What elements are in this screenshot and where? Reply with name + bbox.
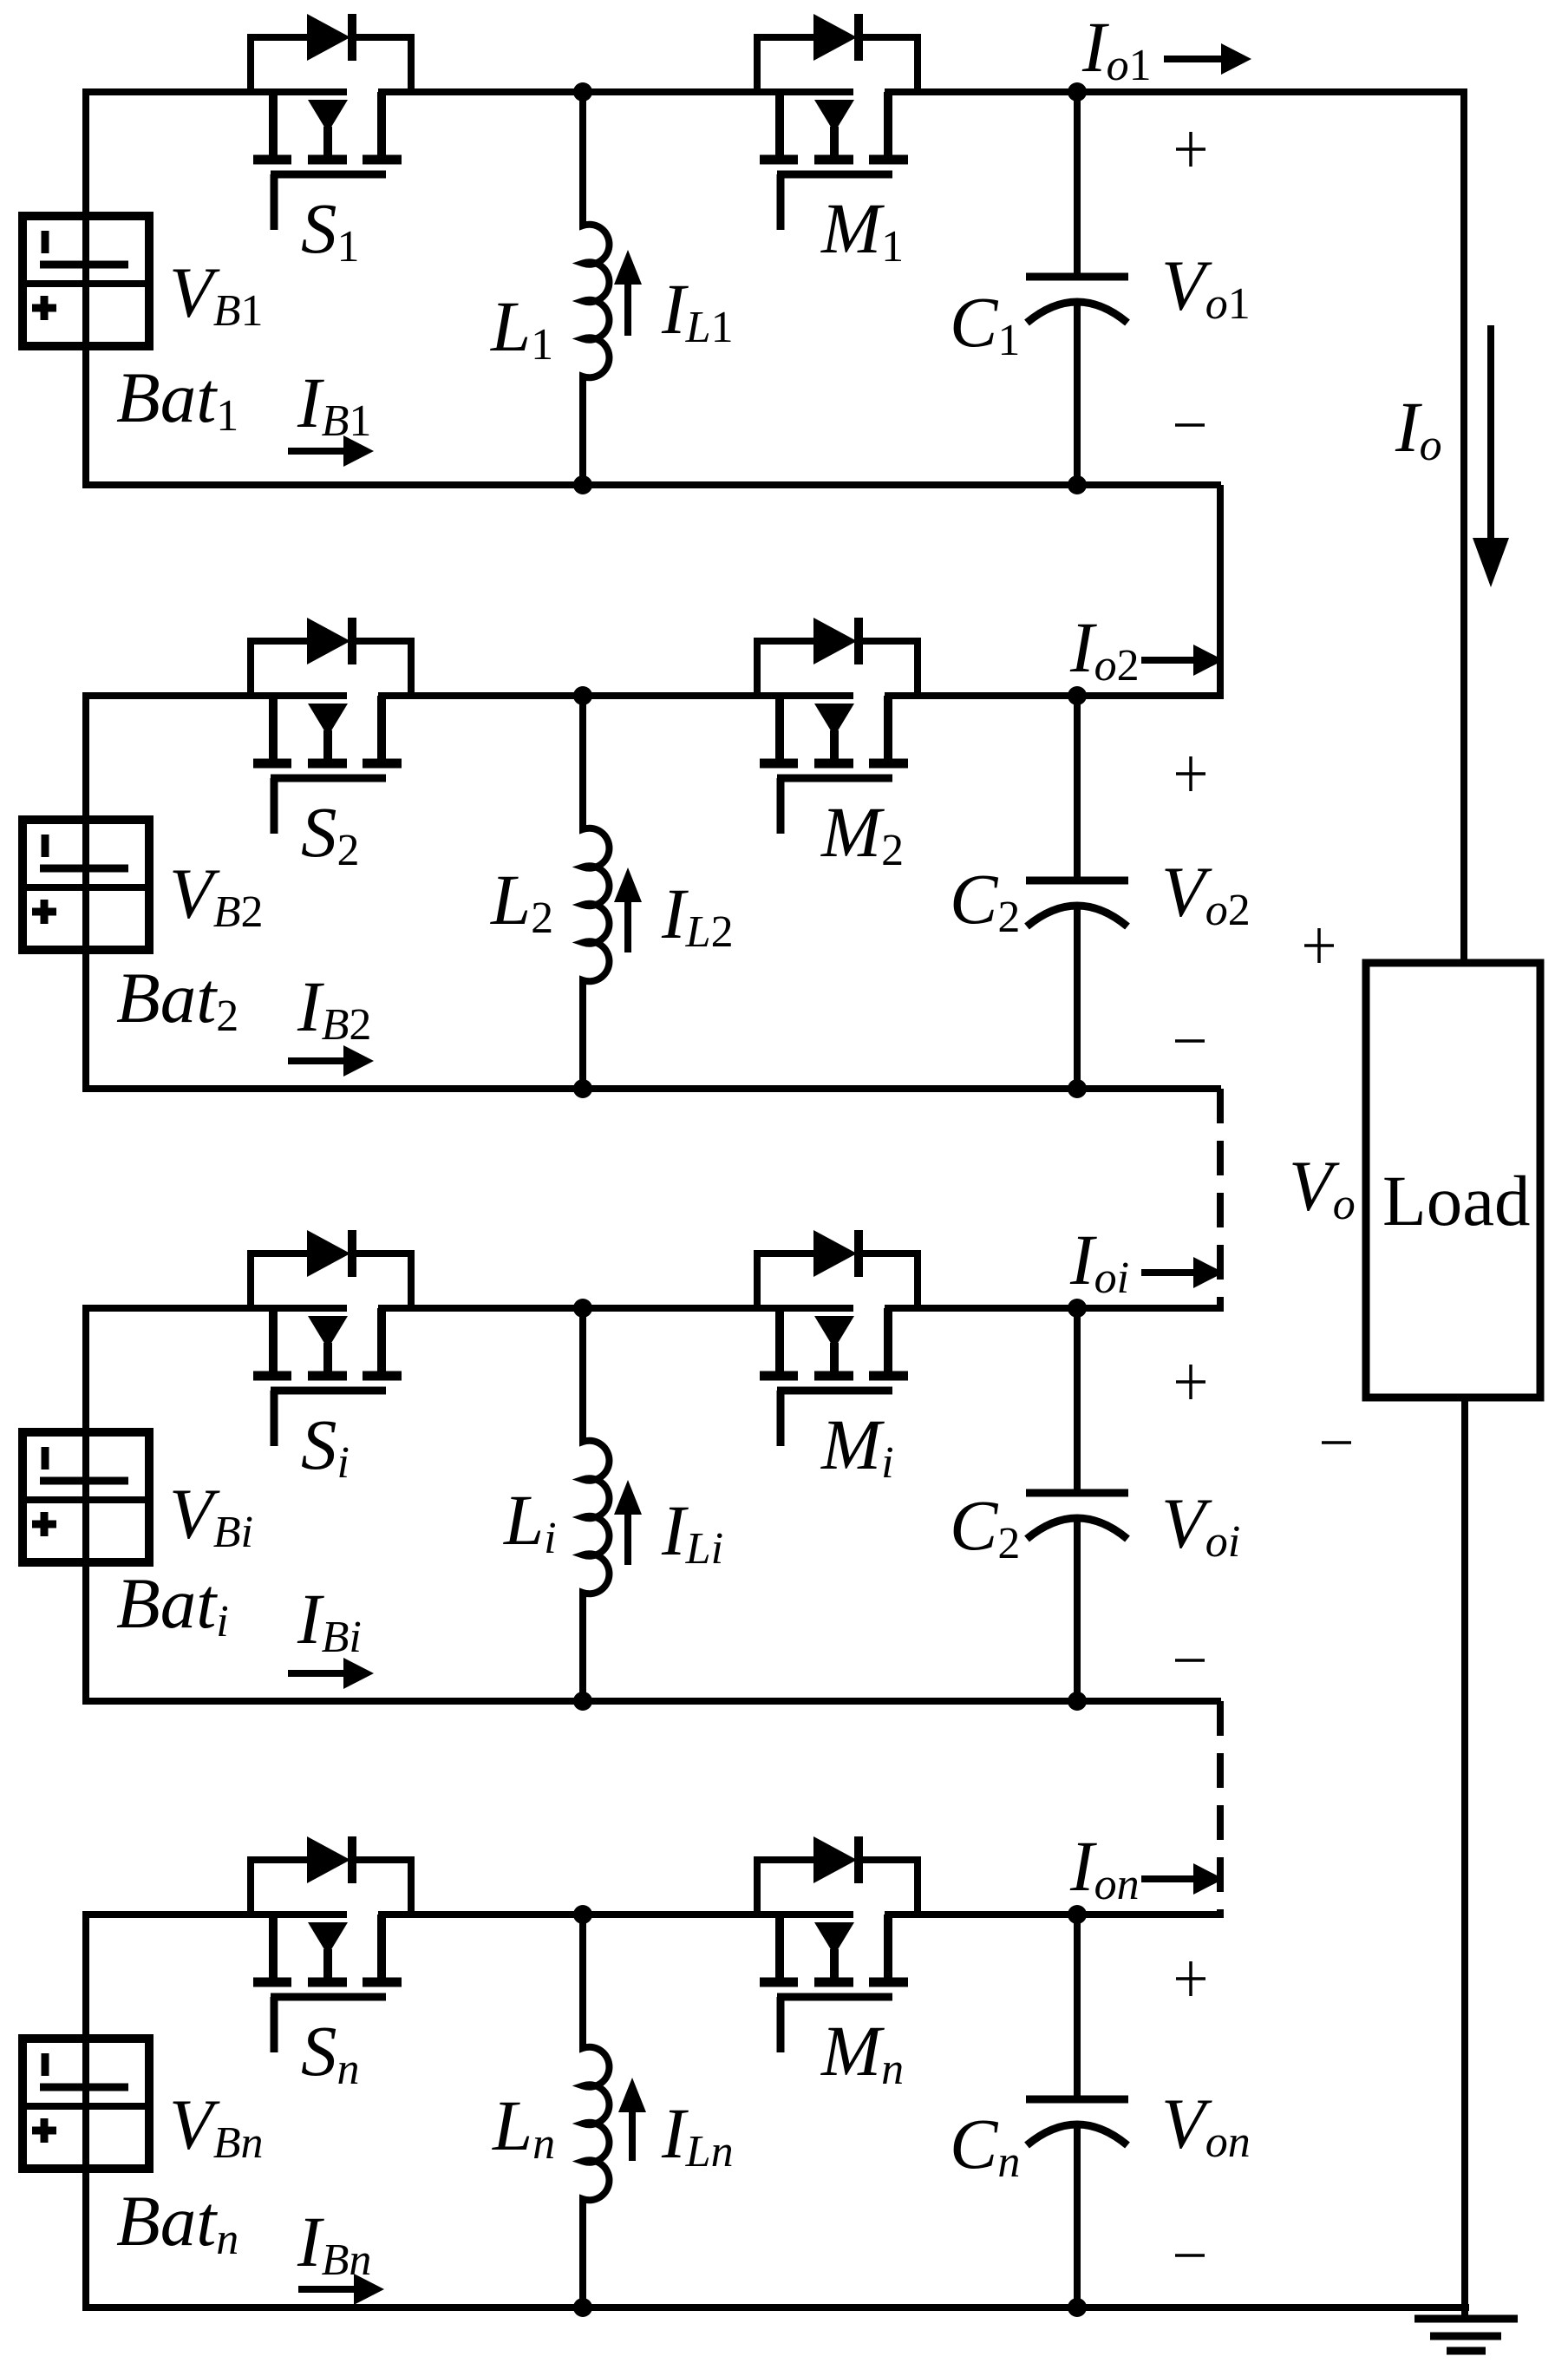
transistor S2 (MOSFET with body diode) bbox=[251, 618, 411, 834]
transistor Si (MOSFET with body diode) bbox=[251, 1230, 411, 1446]
capacitor C2 (stage 2) bbox=[1026, 696, 1128, 1089]
wire: stage 2 left (battery) wire bbox=[82, 696, 89, 1089]
arrow Io bbox=[1473, 325, 1509, 587]
node: L2 top junction bbox=[573, 686, 592, 705]
battery Bati bbox=[23, 1432, 149, 1562]
svg-text:VBn: VBn bbox=[169, 2085, 263, 2168]
svg-text:Sn: Sn bbox=[301, 2011, 360, 2094]
node: L1 bottom junction bbox=[573, 475, 592, 494]
svg-text:IBn: IBn bbox=[297, 2202, 371, 2285]
svg-text:Bati: Bati bbox=[116, 1563, 229, 1646]
svg-text:VB2: VB2 bbox=[169, 854, 263, 937]
transistor S1 (MOSFET with body diode) bbox=[251, 14, 411, 230]
svg-text:M2: M2 bbox=[820, 792, 904, 875]
plus sign Vo2 bbox=[1176, 756, 1205, 791]
svg-text:Bat1: Bat1 bbox=[116, 357, 238, 441]
wire: load bottom to ground rail bbox=[1461, 1397, 1468, 2318]
svg-text:ILi: ILi bbox=[661, 1490, 723, 1574]
wire: stage 1 left (battery) wire bbox=[82, 92, 89, 485]
transistor M1 (MOSFET with body diode) bbox=[757, 14, 918, 230]
plus sign Von bbox=[1176, 1961, 1205, 1996]
wire: stage 2 top rail bbox=[82, 692, 1221, 699]
minus sign Vo2 bbox=[1175, 1039, 1205, 1043]
svg-text:Vo1: Vo1 bbox=[1161, 245, 1251, 329]
wire: stage i top rail bbox=[82, 1305, 1221, 1312]
svg-text:Vo: Vo bbox=[1289, 1146, 1356, 1229]
transistor Mn (MOSFET with body diode) bbox=[757, 1836, 918, 2052]
arrow Io2 bbox=[1141, 645, 1224, 676]
ground bbox=[1414, 2319, 1518, 2351]
svg-text:S2: S2 bbox=[301, 792, 360, 875]
wire: stage 1 top rail bbox=[82, 88, 1464, 95]
node: L2 bottom junction bbox=[573, 1079, 592, 1098]
inductor Ln bbox=[583, 1915, 609, 2307]
inductor Li bbox=[583, 1308, 609, 1701]
node: Li bottom junction bbox=[573, 1692, 592, 1711]
svg-text:Io: Io bbox=[1395, 387, 1442, 470]
arrow IB1 bbox=[288, 435, 374, 467]
capacitor C1 (stage 1) bbox=[1026, 92, 1128, 485]
svg-text:Ioi: Ioi bbox=[1069, 1220, 1129, 1303]
node: C bottom junction stage n bbox=[1068, 2298, 1087, 2317]
svg-text:Vo2: Vo2 bbox=[1161, 852, 1251, 935]
svg-text:Io2: Io2 bbox=[1069, 607, 1140, 691]
arrow ILn bbox=[618, 2078, 646, 2161]
node: L1 top junction bbox=[573, 82, 592, 101]
arrow IL1 bbox=[614, 250, 642, 336]
arrow Ion bbox=[1141, 1863, 1224, 1895]
wire: stage n top rail bbox=[82, 1911, 1221, 1918]
node: C bottom junction stage i bbox=[1068, 1692, 1087, 1711]
svg-text:Io1: Io1 bbox=[1081, 7, 1152, 90]
battery Bat1 bbox=[23, 216, 149, 346]
wire: stage i bottom rail bbox=[82, 1698, 1221, 1705]
svg-text:Ln: Ln bbox=[492, 2085, 555, 2169]
svg-text:Voi: Voi bbox=[1161, 1483, 1240, 1567]
wire: link stage1 bottom to stage2 top rail bbox=[1217, 485, 1224, 699]
arrow IBn bbox=[298, 2274, 384, 2305]
svg-text:Mi: Mi bbox=[820, 1404, 894, 1488]
svg-text:Ion: Ion bbox=[1069, 1826, 1140, 1909]
svg-text:M1: M1 bbox=[820, 188, 904, 272]
plus sign Vo1 bbox=[1176, 132, 1205, 167]
node: Ln top junction bbox=[573, 1905, 592, 1924]
wire: stage 2 bottom rail bbox=[82, 1085, 1221, 1092]
arrow ILi bbox=[614, 1480, 642, 1565]
wire: output rail to load bbox=[1460, 88, 1467, 963]
minus sign Von bbox=[1175, 2254, 1205, 2257]
transistor Mi (MOSFET with body diode) bbox=[757, 1230, 918, 1446]
minus sign Vo1 bbox=[1175, 423, 1205, 427]
svg-text:IL2: IL2 bbox=[661, 874, 734, 957]
svg-text:Von: Von bbox=[1161, 2084, 1251, 2167]
wire: dashed link stage2 bottom to stage i top rail bbox=[1217, 1089, 1224, 1312]
svg-text:S1: S1 bbox=[301, 188, 360, 272]
arrow Io1 bbox=[1164, 43, 1251, 75]
load box bbox=[1366, 963, 1540, 1397]
battery Bat2 bbox=[23, 820, 149, 950]
plus sign Voi bbox=[1176, 1365, 1205, 1399]
arrow Ioi bbox=[1141, 1257, 1224, 1288]
svg-text:Mn: Mn bbox=[820, 2011, 904, 2094]
svg-text:Batn: Batn bbox=[116, 2181, 238, 2264]
wire: dashed link stage i bottom to stage n top rail bbox=[1217, 1701, 1224, 1918]
svg-text:Bat2: Bat2 bbox=[116, 958, 238, 1041]
wire: stage n left (battery) wire bbox=[82, 1915, 89, 2307]
node: C top junction stage 1 bbox=[1068, 82, 1087, 101]
svg-text:VB1: VB1 bbox=[169, 252, 263, 336]
node: Ln bottom junction bbox=[573, 2298, 592, 2317]
capacitor C2 (stage i) bbox=[1026, 1308, 1128, 1701]
wire: stage 1 bottom rail bbox=[82, 481, 1221, 488]
svg-text:VBi: VBi bbox=[169, 1474, 253, 1557]
svg-text:Load: Load bbox=[1382, 1161, 1531, 1240]
svg-text:Si: Si bbox=[301, 1404, 350, 1488]
arrow IB2 bbox=[288, 1045, 374, 1077]
capacitor Cn (stage n) bbox=[1026, 1915, 1128, 2307]
arrow IL2 bbox=[614, 867, 642, 952]
svg-text:C2: C2 bbox=[950, 859, 1020, 942]
svg-text:IB2: IB2 bbox=[297, 966, 371, 1050]
transistor Sn (MOSFET with body diode) bbox=[251, 1836, 411, 2052]
plus sign Vo bbox=[1304, 928, 1334, 963]
svg-text:L1: L1 bbox=[490, 286, 553, 370]
wire: stage n bottom rail bbox=[82, 2304, 1469, 2311]
svg-text:Cn: Cn bbox=[950, 2104, 1020, 2187]
node: C top junction stage n bbox=[1068, 1905, 1087, 1924]
svg-text:C1: C1 bbox=[950, 282, 1020, 365]
svg-text:ILn: ILn bbox=[661, 2093, 734, 2176]
inductor L1 bbox=[583, 92, 609, 485]
svg-text:IB1: IB1 bbox=[297, 363, 371, 446]
battery Batn bbox=[23, 2039, 149, 2169]
node: Li top junction bbox=[573, 1299, 592, 1318]
svg-text:IL1: IL1 bbox=[661, 269, 734, 352]
svg-text:C2: C2 bbox=[950, 1485, 1020, 1568]
inductor L2 bbox=[583, 696, 609, 1089]
minus sign Vo bbox=[1322, 1441, 1351, 1444]
svg-text:L2: L2 bbox=[490, 860, 553, 943]
node: C bottom junction stage 1 bbox=[1068, 475, 1087, 494]
minus sign Voi bbox=[1175, 1659, 1205, 1662]
transistor M2 (MOSFET with body diode) bbox=[757, 618, 918, 834]
node: C bottom junction stage 2 bbox=[1068, 1079, 1087, 1098]
node: C top junction stage 2 bbox=[1068, 686, 1087, 705]
svg-text:Li: Li bbox=[503, 1480, 557, 1563]
svg-text:IBi: IBi bbox=[297, 1579, 362, 1662]
arrow IBi bbox=[288, 1658, 374, 1689]
wire: stage i left (battery) wire bbox=[82, 1308, 89, 1701]
node: C top junction stage i bbox=[1068, 1299, 1087, 1318]
